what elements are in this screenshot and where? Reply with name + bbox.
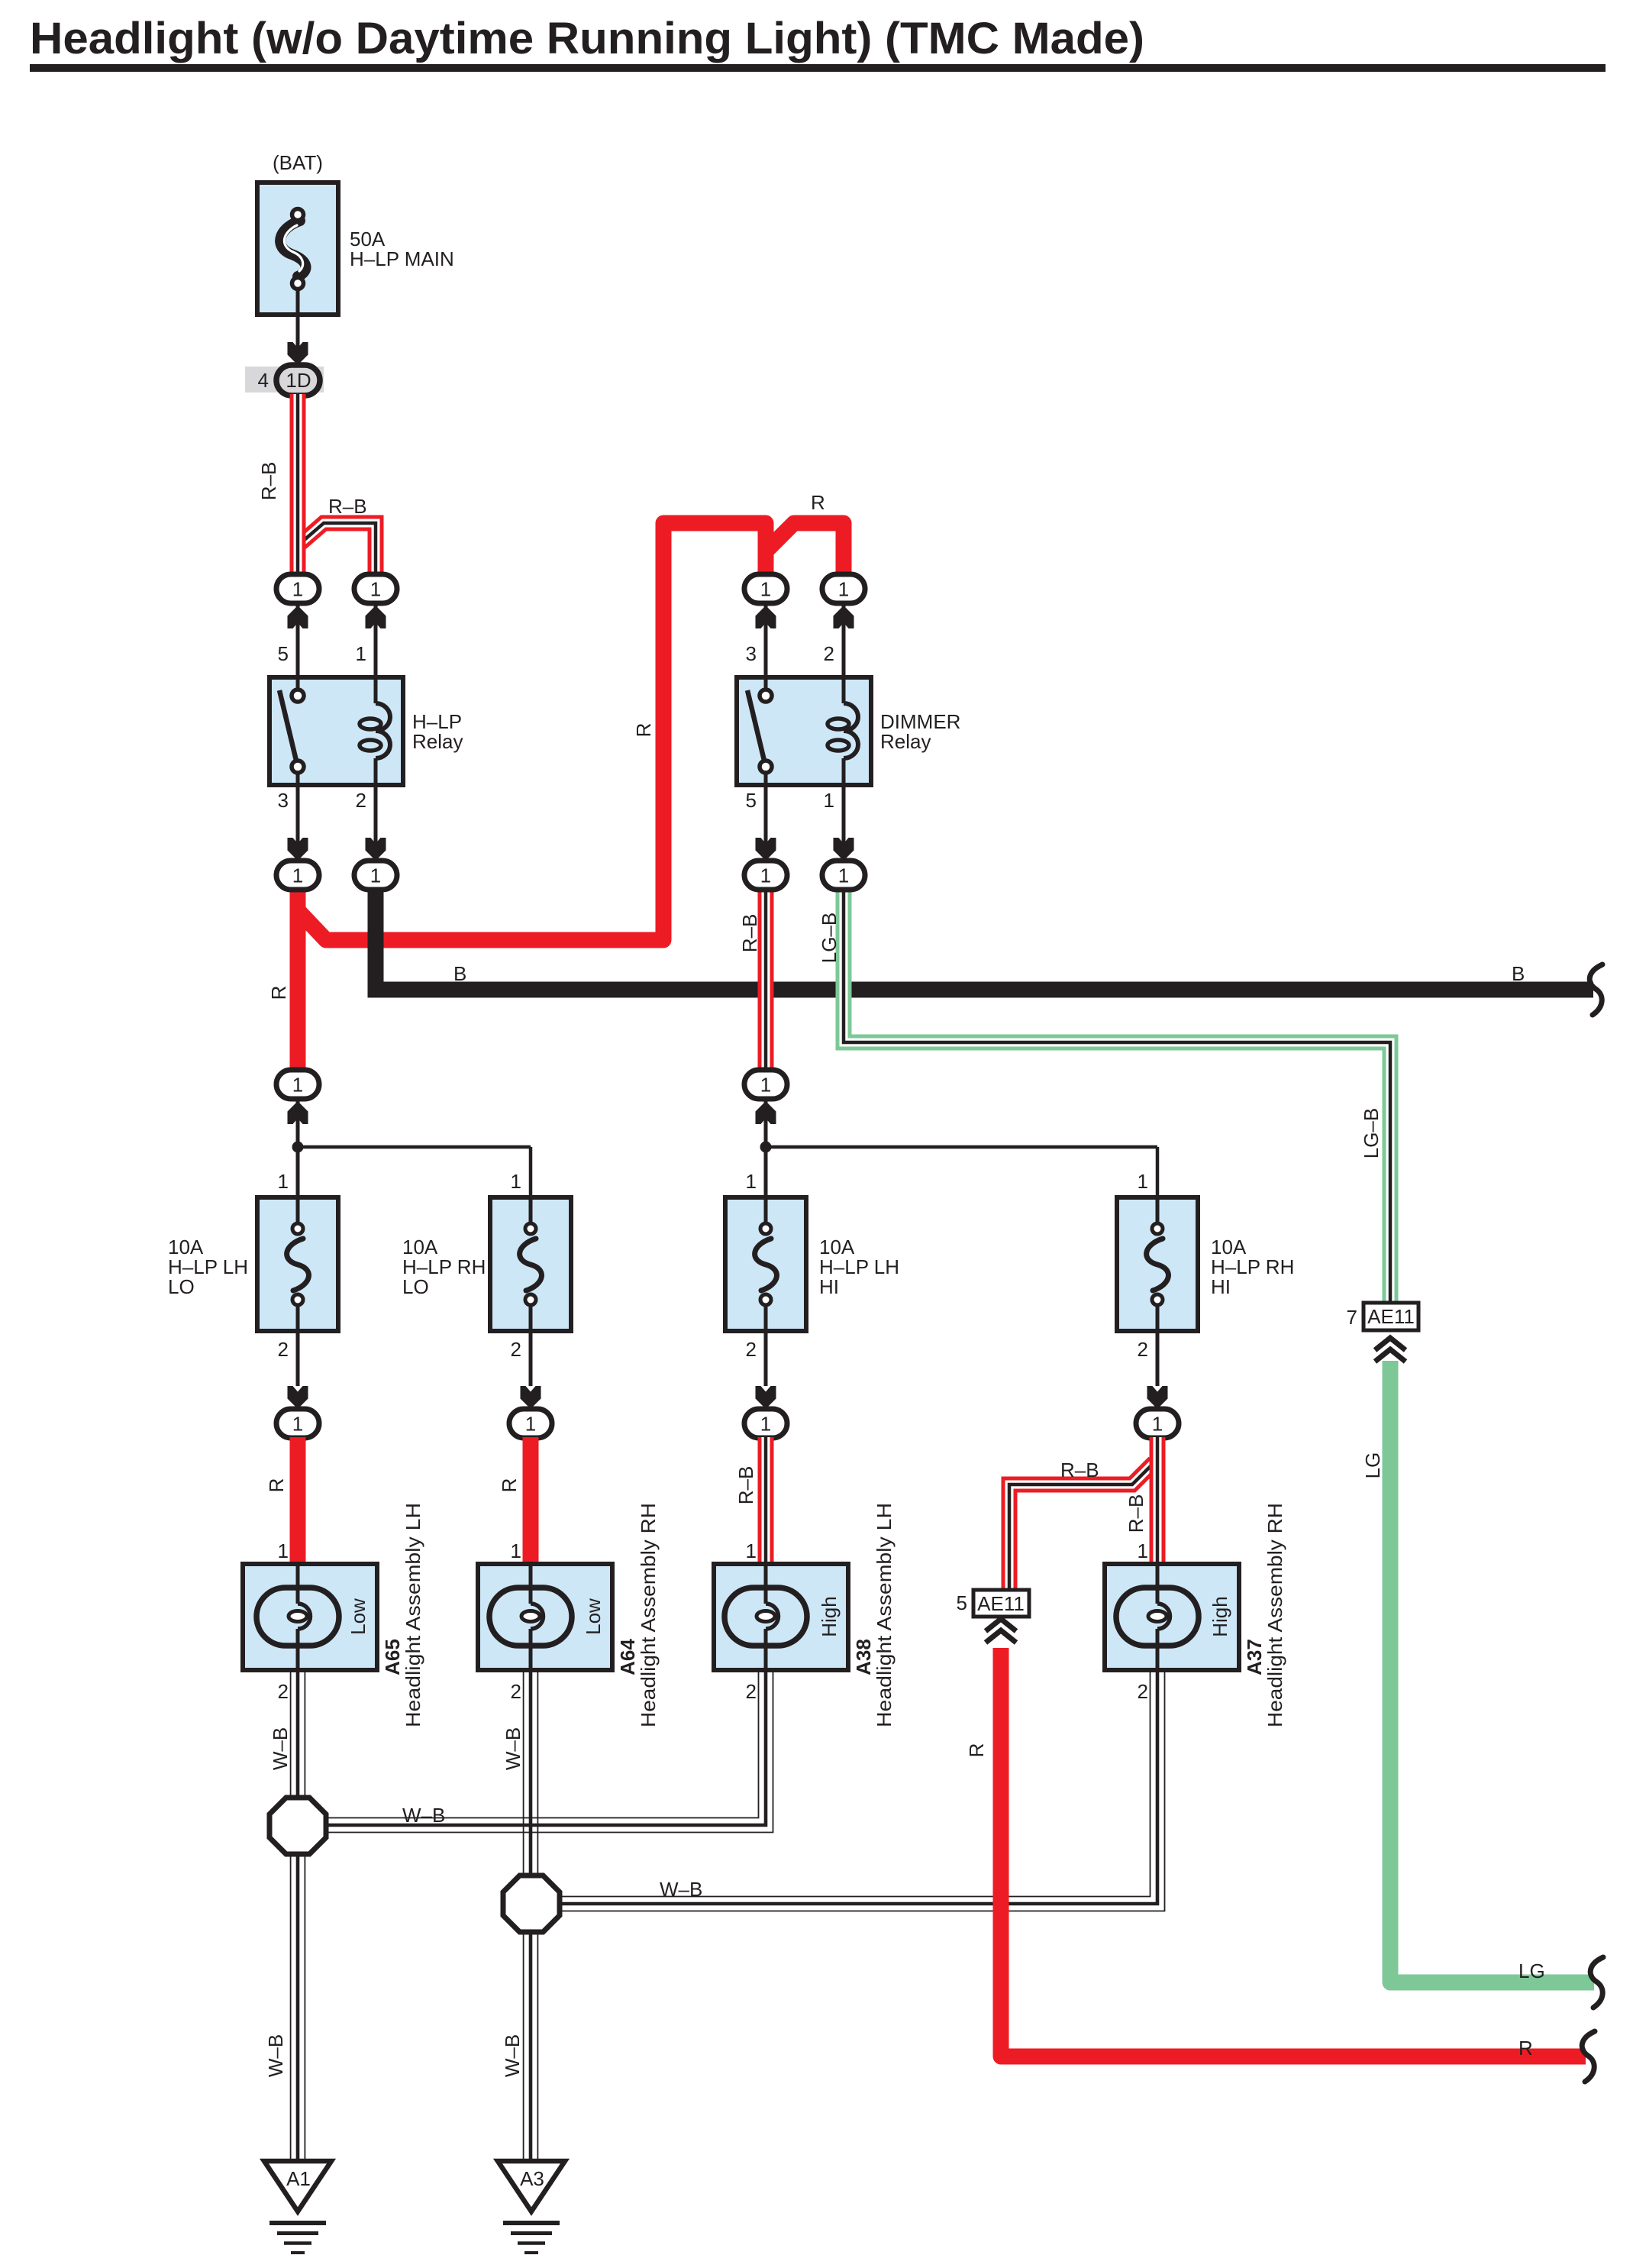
break symbol LG: [1590, 1957, 1603, 2008]
break symbol R: [1582, 2031, 1595, 2082]
connector AE11 pin 5: [957, 1590, 1029, 1643]
wire R AE11 to right: [1001, 1648, 1586, 2056]
svg-text:B: B: [453, 962, 466, 985]
svg-text:2: 2: [511, 1680, 521, 1703]
svg-text:R–B: R–B: [1125, 1494, 1147, 1533]
label LG: [1361, 1452, 1384, 1479]
svg-text:R: R: [811, 491, 825, 514]
label LG-B: [818, 913, 841, 964]
label H-LP RH LO: [402, 1236, 486, 1298]
svg-text:2: 2: [511, 1338, 521, 1361]
svg-text:HI: HI: [819, 1275, 839, 1298]
label LG-B: [1360, 1108, 1383, 1159]
node (BAT): [273, 151, 323, 174]
svg-text:W–B: W–B: [502, 1727, 524, 1770]
svg-text:LO: LO: [168, 1275, 195, 1298]
svg-text:(BAT): (BAT): [273, 151, 323, 174]
label A37: [1243, 1639, 1266, 1675]
connector junction right: [744, 1070, 787, 1197]
ground A1: [264, 2161, 331, 2253]
label Headlight Assembly RH A64: [637, 1503, 660, 1727]
svg-text:2: 2: [278, 1680, 289, 1703]
node junction right: [760, 1142, 1158, 1198]
connector pin 3 DIMMER relay: [744, 574, 787, 677]
title: [30, 14, 1606, 72]
label R-B: [738, 914, 761, 953]
svg-text:3: 3: [746, 642, 757, 665]
svg-text:Headlight Assembly LH: Headlight Assembly LH: [873, 1503, 896, 1727]
svg-text:1: 1: [292, 1074, 303, 1097]
svg-text:LG–B: LG–B: [1360, 1108, 1383, 1159]
svg-text:1: 1: [525, 1413, 536, 1436]
connector pin 2 DIMMER relay: [822, 574, 865, 677]
svg-text:1: 1: [760, 1413, 771, 1436]
svg-text:A37: A37: [1243, 1639, 1266, 1675]
svg-text:LG: LG: [1361, 1452, 1384, 1479]
svg-text:1: 1: [370, 578, 381, 601]
label B: [453, 962, 466, 985]
svg-text:5: 5: [278, 642, 289, 665]
label H-LP RH HI: [1211, 1236, 1294, 1298]
svg-text:B: B: [1512, 962, 1525, 985]
svg-text:LG: LG: [1518, 1959, 1545, 1982]
svg-text:1: 1: [760, 578, 771, 601]
label R: [965, 1743, 988, 1758]
svg-text:1: 1: [838, 864, 849, 887]
svg-text:R–B: R–B: [734, 1466, 757, 1505]
connector 1D pin 4: [245, 365, 324, 396]
svg-text:1: 1: [1138, 1539, 1148, 1562]
connector pin 1 H-LP relay: [354, 574, 397, 677]
svg-text:1: 1: [760, 864, 771, 887]
svg-text:1: 1: [292, 864, 303, 887]
node junction left: [292, 1142, 531, 1198]
svg-text:Headlight Assembly RH: Headlight Assembly RH: [637, 1503, 660, 1727]
svg-text:Low: Low: [347, 1598, 370, 1635]
break symbol B: [1589, 964, 1602, 1015]
svg-text:Headlight Assembly LH: Headlight Assembly LH: [402, 1503, 424, 1727]
label H-LP LH HI: [819, 1236, 899, 1298]
label B: [1512, 962, 1525, 985]
label H-LP LH LO: [168, 1236, 248, 1298]
svg-text:A38: A38: [852, 1639, 875, 1675]
label Headlight Assembly LH A65: [402, 1503, 424, 1727]
svg-text:R–B: R–B: [328, 495, 367, 518]
svg-text:A1: A1: [286, 2167, 311, 2190]
label R-B: [734, 1466, 757, 1505]
svg-text:AE11: AE11: [977, 1592, 1025, 1615]
svg-text:2: 2: [356, 789, 366, 812]
svg-text:W–B: W–B: [264, 2034, 287, 2077]
label R-B: [1125, 1494, 1147, 1533]
svg-text:1: 1: [356, 642, 366, 665]
label R-B: [328, 495, 367, 518]
label A64: [616, 1639, 639, 1675]
label H-LP Relay: [412, 710, 463, 753]
svg-text:1: 1: [746, 1170, 757, 1193]
label R: [265, 1478, 288, 1493]
svg-text:W–B: W–B: [660, 1878, 702, 1901]
svg-text:1: 1: [1152, 1413, 1163, 1436]
connector pin 3 below H-LP relay: [276, 785, 319, 890]
wire R-B fuse to A38: [758, 1437, 774, 1564]
label W-B: [501, 2034, 524, 2077]
svg-text:1: 1: [370, 864, 381, 887]
label LG: [1518, 1959, 1545, 1982]
label Headlight Assembly RH A37: [1263, 1503, 1286, 1727]
wire W-B A37 to junction: [559, 1670, 1165, 1911]
connector AE11 pin 7: [1347, 1303, 1418, 1362]
label Headlight Assembly LH A38: [873, 1503, 896, 1727]
fuse 10A H-LP RH HI: [1117, 1170, 1198, 1438]
relay H-LP: [269, 677, 403, 785]
label DIMMER Relay: [880, 710, 960, 753]
label A38: [852, 1639, 875, 1675]
label R: [267, 986, 290, 1000]
svg-text:1: 1: [824, 789, 834, 812]
svg-text:HI: HI: [1211, 1275, 1231, 1298]
label R: [498, 1478, 521, 1493]
label R-B: [257, 462, 280, 501]
label W-B: [269, 1727, 292, 1770]
svg-text:2: 2: [278, 1338, 289, 1361]
label R: [632, 723, 655, 738]
svg-text:High: High: [818, 1596, 841, 1636]
connector pin 1 below DIMMER relay: [822, 785, 865, 890]
svg-text:1: 1: [746, 1539, 757, 1562]
label R: [811, 491, 825, 514]
svg-text:R: R: [965, 1743, 988, 1758]
svg-text:W–B: W–B: [402, 1804, 445, 1827]
headlight A64 Low beam bulb: [478, 1539, 612, 1703]
label W-B: [402, 1804, 445, 1827]
svg-text:1: 1: [292, 1413, 303, 1436]
svg-text:2: 2: [746, 1680, 757, 1703]
svg-text:LO: LO: [402, 1275, 429, 1298]
svg-text:1: 1: [292, 578, 303, 601]
svg-text:AE11: AE11: [1367, 1305, 1415, 1328]
headlight A37 High beam bulb: [1105, 1539, 1239, 1703]
svg-text:5: 5: [957, 1591, 967, 1614]
connector junction left: [276, 1070, 319, 1197]
junction octagon A1 branch: [269, 1798, 326, 1854]
wire W-B A38 to junction: [326, 1670, 773, 1833]
wire B H-LP relay pin 2 to right: [376, 890, 1593, 990]
label W-B: [660, 1878, 702, 1901]
headlight A38 High beam bulb: [714, 1539, 848, 1703]
fuse 10A H-LP RH LO: [490, 1170, 571, 1438]
wire LG AE11 to right: [1390, 1361, 1594, 1982]
svg-text:7: 7: [1347, 1306, 1357, 1329]
label A65: [381, 1639, 404, 1675]
svg-text:2: 2: [1138, 1680, 1148, 1703]
label R: [1518, 2037, 1533, 2060]
svg-text:A64: A64: [616, 1639, 639, 1675]
svg-text:R: R: [265, 1478, 288, 1493]
svg-text:2: 2: [824, 642, 834, 665]
svg-text:1: 1: [1138, 1170, 1148, 1193]
svg-text:H–LP MAIN: H–LP MAIN: [350, 247, 454, 270]
svg-text:R: R: [1518, 2037, 1533, 2060]
svg-text:1: 1: [511, 1170, 521, 1193]
svg-text:Relay: Relay: [880, 730, 931, 753]
wire fuse to 1D: [288, 290, 308, 365]
svg-text:2: 2: [1138, 1338, 1148, 1361]
svg-text:High: High: [1209, 1596, 1231, 1636]
svg-text:R–B: R–B: [738, 914, 761, 953]
wire R-B 1D to H-LP relay: [298, 394, 376, 573]
connector pin 5 below DIMMER relay: [744, 785, 787, 890]
svg-text:4: 4: [258, 369, 269, 392]
ground A3: [498, 2161, 565, 2253]
svg-text:Low: Low: [582, 1598, 605, 1635]
svg-text:1: 1: [511, 1539, 521, 1562]
fuse 10A H-LP LH LO: [257, 1170, 338, 1438]
svg-text:1: 1: [838, 578, 849, 601]
svg-text:Headlight (w/o Daytime Running: Headlight (w/o Daytime Running Light) (T…: [30, 14, 1144, 63]
svg-text:3: 3: [278, 789, 289, 812]
svg-text:R–B: R–B: [257, 462, 280, 501]
wire R fuse to A64: [523, 1437, 539, 1564]
svg-text:R: R: [632, 723, 655, 738]
label W-B: [264, 2034, 287, 2077]
fuse 10A H-LP LH HI: [725, 1170, 806, 1438]
junction octagon A3 branch: [503, 1875, 560, 1932]
svg-text:2: 2: [746, 1338, 757, 1361]
connector pin 5 H-LP relay: [276, 574, 319, 677]
wire R fuse to A65: [290, 1437, 306, 1564]
svg-text:R: R: [267, 986, 290, 1000]
svg-text:1: 1: [278, 1539, 289, 1562]
wire LG-B dimmer relay pin 1 to AE11: [844, 890, 1390, 1303]
svg-text:R–B: R–B: [1060, 1459, 1099, 1481]
svg-text:W–B: W–B: [501, 2034, 524, 2077]
svg-text:1: 1: [278, 1170, 289, 1193]
connector pin 2 below H-LP relay: [354, 785, 397, 890]
wire R H-LP relay pin 3 to fuses and dimmer relay: [298, 523, 844, 1069]
wire W-B A65 to ground A1: [291, 1670, 305, 2161]
headlight A65 Low beam bulb: [243, 1539, 377, 1703]
label W-B: [502, 1727, 524, 1770]
svg-text:A65: A65: [381, 1639, 404, 1675]
wire W-B A64 to ground A3: [524, 1670, 538, 2161]
svg-text:A3: A3: [520, 2167, 544, 2190]
svg-text:Headlight Assembly RH: Headlight Assembly RH: [1263, 1503, 1286, 1727]
svg-text:R: R: [498, 1478, 521, 1493]
wire R-B dimmer relay pin 5 to fuse feed: [758, 890, 774, 1069]
svg-text:Relay: Relay: [412, 730, 463, 753]
label R-B: [1060, 1459, 1099, 1481]
svg-text:1: 1: [760, 1074, 771, 1097]
svg-text:1D: 1D: [286, 369, 311, 392]
svg-text:W–B: W–B: [269, 1727, 292, 1770]
fuse 50A H-LP MAIN: [257, 183, 454, 315]
svg-text:LG–B: LG–B: [818, 913, 841, 964]
svg-text:5: 5: [746, 789, 757, 812]
relay DIMMER: [737, 677, 871, 785]
wire R-B fuse to A37 and AE11: [1009, 1437, 1157, 1590]
